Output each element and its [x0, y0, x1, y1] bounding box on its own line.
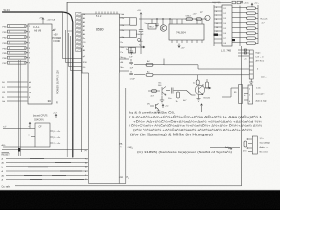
IC U5 body [222, 5, 232, 46]
wire top thick bus [3, 12, 73, 157]
resistor above Q2 [196, 80, 199, 85]
resistor RC [146, 73, 153, 76]
IC U2 socket pin boxes left column [76, 13, 82, 52]
node +5 arrow mid [162, 104, 164, 108]
resistor RB [146, 63, 153, 66]
connector J1 pin boxes group1 [8, 25, 27, 50]
IC U1 left pin stubs [26, 26, 28, 63]
capacitor at x157 [155, 24, 159, 27]
ladder left stubs [240, 8, 247, 43]
wire W2 row C to connector [153, 74, 249, 76]
bus line darker segments [24, 159, 84, 180]
capacitor 1000uF bars [139, 30, 143, 32]
node +5V arrow top left of section [140, 13, 142, 15]
connector J1 pin labels group1 [3, 26, 8, 50]
arrow out row A [141, 46, 145, 48]
wire vertical x81 [81, 48, 83, 152]
capacitor CA [130, 47, 134, 55]
bus labels left [2, 158, 5, 182]
IC U2 right pin labels [121, 14, 126, 69]
capacitor C1 wires [120, 18, 130, 26]
transistor Q2 with circle [195, 85, 205, 95]
connector P3 pins [248, 139, 252, 152]
resistor R1k vertical [177, 92, 180, 98]
capacitor CB [129, 59, 133, 65]
wire vertical x118 [118, 73, 120, 184]
voltage regulator section : wire Vin vertical [139, 13, 143, 55]
IC U5 pin numbers [216, 7, 226, 45]
ground below P1 [249, 79, 253, 85]
IC U5 74LS373 left pin column [214, 5, 222, 46]
latch bottom stubs to connector A [238, 49, 249, 56]
annotation text block [129, 110, 263, 137]
IC U2 SID 8580 body [82, 14, 120, 73]
IC U4 bottom pins [172, 19, 202, 43]
connector J1 group3 labels [2, 82, 6, 103]
connector P1 pin ticks [249, 54, 253, 74]
wire U7 input 1 [3, 128, 31, 130]
wire top thin line [67, 2, 231, 12]
IC U1 internal pin marks [29, 26, 31, 99]
node ring at C2 [138, 38, 141, 41]
connector P3 body [252, 136, 257, 154]
connector P1 DIN body [249, 50, 253, 79]
IC U6 bottom center frame [82, 73, 126, 184]
IC U2 socket hatch [77, 13, 81, 51]
wire bottom edge [89, 183, 126, 185]
IC U5 filled pin blob2 [232, 39, 235, 41]
component box at U2 lower right [129, 48, 136, 54]
connector J1 box inner ticks g1 [10, 25, 25, 49]
wire L2 [66, 30, 82, 63]
IC U7 sound dma box [35, 123, 50, 147]
resistor R470 vertical [244, 141, 247, 147]
wire vertical x126 [125, 88, 127, 184]
U7 left pins [29, 122, 35, 136]
staircase wire to connector P2 [222, 88, 238, 97]
wire latch down vertical [241, 46, 243, 186]
capacitor C1 [130, 18, 137, 25]
audio path row C [120, 71, 154, 76]
junction dots on rail [156, 18, 157, 19]
wire thin x67 drop [67, 2, 73, 157]
audio path row A [120, 47, 146, 55]
wire page bottom line [15, 185, 242, 187]
ladder right rail [256, 5, 259, 44]
wire pair x20 [19, 60, 21, 156]
IC U5 filled pin blob [214, 34, 219, 36]
connector J1 pin labels group2 [3, 53, 8, 65]
IC U2 top pin ticks [96, 12, 117, 15]
scan noise overlay [0, 0, 1, 1]
IC U1 CIA 6526 body [28, 24, 52, 104]
node +5 arrow right of header [55, 114, 57, 118]
node +5V below U4 [178, 44, 180, 48]
bottom black bar [0, 191, 280, 210]
capacitor C2 [130, 30, 137, 37]
wire stub P3 to bottom [241, 146, 243, 148]
wire vertical x88 [88, 73, 90, 184]
wire drops from rail [152, 19, 170, 25]
cluster right of rail : resistor ROB [186, 18, 193, 21]
connector P2 labels [256, 88, 268, 103]
audio path row B [120, 59, 165, 67]
IC U4 7406 body [169, 24, 204, 40]
capacitor C10u [166, 88, 177, 94]
IC U1 internal label [33, 25, 42, 33]
bus line RESET [2, 149, 88, 151]
capacitor C2 wires [120, 30, 130, 38]
wire bus verticals from U1 area [19, 2, 82, 157]
bar top soft edge [0, 189, 280, 192]
wire top rail y19 [139, 18, 207, 20]
node +5V arrow right top [251, 3, 253, 7]
output arrow right of Q2 [205, 87, 211, 89]
transistor Q1 [148, 87, 166, 96]
wire U2 bottom left corner [82, 72, 89, 74]
IC U2 left pin labels [83, 14, 87, 69]
label +5V POWER [53, 35, 62, 44]
ground below Q2 [197, 95, 201, 102]
wire L4 [71, 36, 82, 71]
paper background [0, 0, 280, 210]
wire Q2 collector up [198, 75, 207, 87]
connector J1 box inner ticks g2 [10, 52, 25, 64]
resistor ROC [196, 18, 202, 21]
connector P2 pins [243, 88, 249, 100]
resistor ladder R1-R8 [240, 5, 258, 45]
IC U1 right pin phi0 [52, 30, 55, 32]
connector J1 pin boxes group2 [8, 51, 27, 64]
RESET blob [18, 148, 21, 152]
bus lines address data [6, 159, 88, 180]
wire vertical x62 [63, 13, 82, 59]
node +5V at U1 top [42, 18, 44, 24]
connector P2 pin numbers [249, 89, 251, 104]
bus pin labels at box edge [85, 150, 88, 181]
narrow box left of P2 [239, 85, 243, 104]
resistor right of Q2 top [206, 82, 209, 88]
wire L3 [69, 33, 82, 67]
regulator U3 7812 box [148, 24, 156, 30]
wire down right mid [201, 104, 203, 112]
connector P1 labels [256, 52, 267, 79]
IC U5 right pin column [232, 6, 240, 47]
wire W1 row B to connector [164, 65, 249, 69]
wire to Q2 [177, 91, 196, 96]
connector J1 group3 wires [7, 82, 28, 101]
ground below Q1 [160, 96, 164, 104]
transistor Q4 small [205, 15, 210, 20]
transistor Q3 circle [160, 25, 166, 31]
U7 right pins with labels [50, 131, 53, 143]
cluster at top wire end [232, 1, 243, 4]
capacitor CC [129, 71, 133, 75]
wire U7 input 2 [3, 146, 35, 148]
connector P2 jack body [248, 85, 253, 104]
wire pair x18.5 [18, 60, 20, 156]
transistor Q5 small at text top [150, 104, 160, 114]
wire into P3 from left [210, 146, 240, 148]
connector P3 labels [260, 138, 271, 154]
resistor R base Q1 [152, 90, 157, 93]
